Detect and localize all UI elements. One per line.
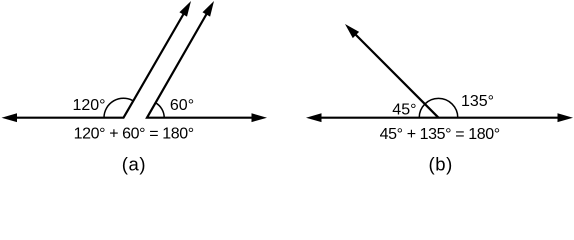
svg-text:60°: 60° xyxy=(170,97,194,114)
svg-text:120° + 60° = 180°: 120° + 60° = 180° xyxy=(74,126,194,143)
svg-text:(b): (b) xyxy=(428,154,452,175)
svg-text:45°: 45° xyxy=(392,102,416,119)
svg-text:135°: 135° xyxy=(461,93,494,110)
svg-text:(a): (a) xyxy=(122,154,146,175)
svg-text:120°: 120° xyxy=(72,97,105,114)
svg-text:45° + 135° = 180°: 45° + 135° = 180° xyxy=(380,126,500,143)
